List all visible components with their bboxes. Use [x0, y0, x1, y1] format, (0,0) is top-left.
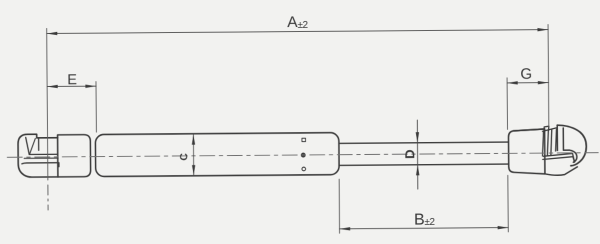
left housing slot channel lines [24, 154, 58, 158]
extension line A-G right (right fitting mount center) [547, 25, 550, 127]
svg-text:E: E [67, 72, 77, 88]
svg-text:±2: ±2 [424, 217, 435, 228]
cylinder end marking: lower ring [302, 167, 306, 171]
label C (rotated) [178, 153, 190, 161]
label D (rotated) [402, 149, 417, 159]
left fitting vertical centerline / extension line A-E [47, 28, 48, 209]
dimension A left arrowhead [47, 32, 58, 35]
dimension D line with inward arrows outside rod [416, 120, 419, 189]
extension line B right (right fitting face) [507, 175, 509, 231]
left housing clip pennant (V wedge and vertical) [26, 137, 39, 154]
piston rod (two edge lines) [339, 142, 510, 165]
label E [67, 72, 77, 88]
right fitting connector block [508, 129, 544, 174]
main horizontal centerline [7, 153, 598, 158]
svg-text:B: B [414, 211, 425, 228]
dimension A right arrowhead [537, 28, 548, 31]
dimension D top arrowhead [416, 132, 419, 143]
dimension E line [47, 85, 96, 87]
svg-text:C: C [178, 153, 190, 161]
extension line E right (cylinder front face) [95, 82, 97, 132]
dimension E right arrowhead [85, 85, 96, 88]
cylinder body (pressure tube) [95, 133, 339, 177]
right housing wall outer edge [556, 125, 558, 150]
cylinder end markings: small square hole [302, 138, 306, 141]
label A±2 [287, 14, 308, 31]
dimension C line with outward arrows inside cylinder [192, 134, 194, 175]
extension line B left (cylinder rear face) [338, 179, 340, 233]
dimension B left arrowhead [340, 227, 351, 230]
dimension C bottom arrowhead [192, 165, 195, 176]
dimension G right arrowhead [538, 81, 549, 84]
right fitting clip flag (band with pole) [543, 153, 575, 162]
dimension B line [340, 228, 509, 229]
right housing wall inner edge and curl [563, 128, 577, 163]
dimension G line [507, 82, 548, 84]
label B±2 [414, 211, 436, 228]
svg-text:G: G [520, 66, 532, 83]
dimension A line [47, 30, 548, 34]
right fitting block top edge [514, 129, 545, 131]
left ball-socket housing (hook piece) outer outline [18, 134, 58, 177]
extension line G left (right fitting front face) [506, 78, 508, 129]
dimension G left arrowhead [507, 81, 518, 84]
cylinder end marking: middle ring on centerline [301, 153, 305, 157]
dimension B right arrowhead [498, 226, 509, 229]
right fitting securing clip (stripes) [542, 126, 556, 156]
dimension E left arrowhead [47, 85, 58, 88]
right fitting bottom sweep [545, 167, 578, 175]
left housing inner lip [22, 163, 59, 167]
svg-text:D: D [402, 149, 417, 159]
dimension D bottom arrowhead [416, 165, 419, 176]
right ball-socket housing (hook piece) [557, 125, 586, 166]
svg-text:±2: ±2 [297, 20, 308, 31]
left end cap block [58, 135, 91, 177]
label G [520, 66, 532, 83]
dimension C top arrowhead [192, 134, 195, 145]
